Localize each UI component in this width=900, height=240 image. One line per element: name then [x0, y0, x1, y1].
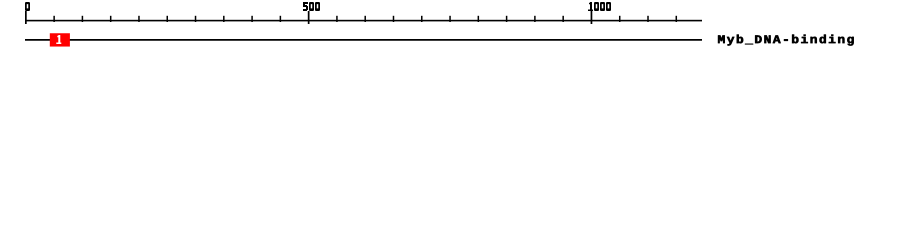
ruler line	[25, 20, 702, 22]
ruler label 1000	[588, 2, 611, 11]
minor ticks	[53, 16, 55, 22]
ruler label 500	[303, 2, 320, 11]
major ticks 0 / 500 / 1000	[25, 11, 27, 24]
sequence line	[25, 39, 702, 41]
domain name label Myb_DNA-binding	[718, 35, 854, 46]
domain number 1	[56, 35, 61, 44]
domain box (red)	[50, 33, 70, 46]
ruler label 0	[25, 2, 30, 11]
